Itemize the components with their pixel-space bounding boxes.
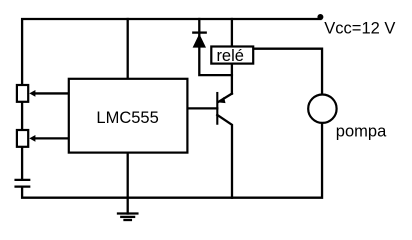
ground symbol bar 3: [125, 219, 131, 221]
motor M1 pump circle: [308, 95, 336, 123]
capacitor C1 top plate: [16, 179, 30, 181]
ground symbol bar 2: [121, 216, 134, 218]
wire: diode branch from rail down and right to relay bottom node: [199, 19, 232, 75]
capacitor C1 bottom plate: [16, 185, 30, 187]
wire: potentiometer P1 wiper to LMC555: [34, 92, 69, 94]
potentiometer P1 body: [17, 85, 28, 102]
potentiometer P1 wiper arrow: [29, 90, 35, 97]
svg-text:pompa: pompa: [336, 123, 387, 141]
diode D1 triangle: [193, 34, 206, 48]
diode D1 cathode bar: [193, 31, 205, 33]
wire: base wire from LMC555 output to transistor: [186, 107, 217, 109]
transistor Q1 emitter arrow (PNP): [218, 97, 226, 103]
wire: relay branch from rail down to transistor emitter corner: [231, 19, 233, 94]
wire: LMC555 ground stem: [127, 150, 129, 214]
wire: transistor emitter diagonal: [218, 94, 232, 103]
wire: relay contact to pump: [253, 49, 322, 95]
node: Vcc junction dot: [317, 14, 323, 20]
svg-text:LMC555: LMC555: [96, 109, 158, 127]
potentiometer P2 body: [17, 130, 28, 147]
wire: LMC555 top supply pin to rail: [127, 19, 129, 82]
wire: bottom ground rail from capacitor to pump: [22, 124, 322, 198]
ground symbol bar 1: [118, 212, 137, 214]
transistor Q1 base bar: [216, 93, 218, 124]
wire: potentiometer P2 wiper to LMC555: [34, 137, 69, 139]
svg-text:relé: relé: [216, 47, 244, 65]
relay K1 coil box: [211, 47, 253, 64]
wire: transistor collector diagonal and drop to bottom rail: [217, 115, 232, 198]
IC U1 LMC555 body: [69, 79, 188, 153]
potentiometer P2 wiper arrow: [29, 135, 35, 142]
wire: left vertical branch + top Vcc rail: [22, 19, 320, 179]
svg-text:Vcc=12 V: Vcc=12 V: [324, 20, 395, 38]
